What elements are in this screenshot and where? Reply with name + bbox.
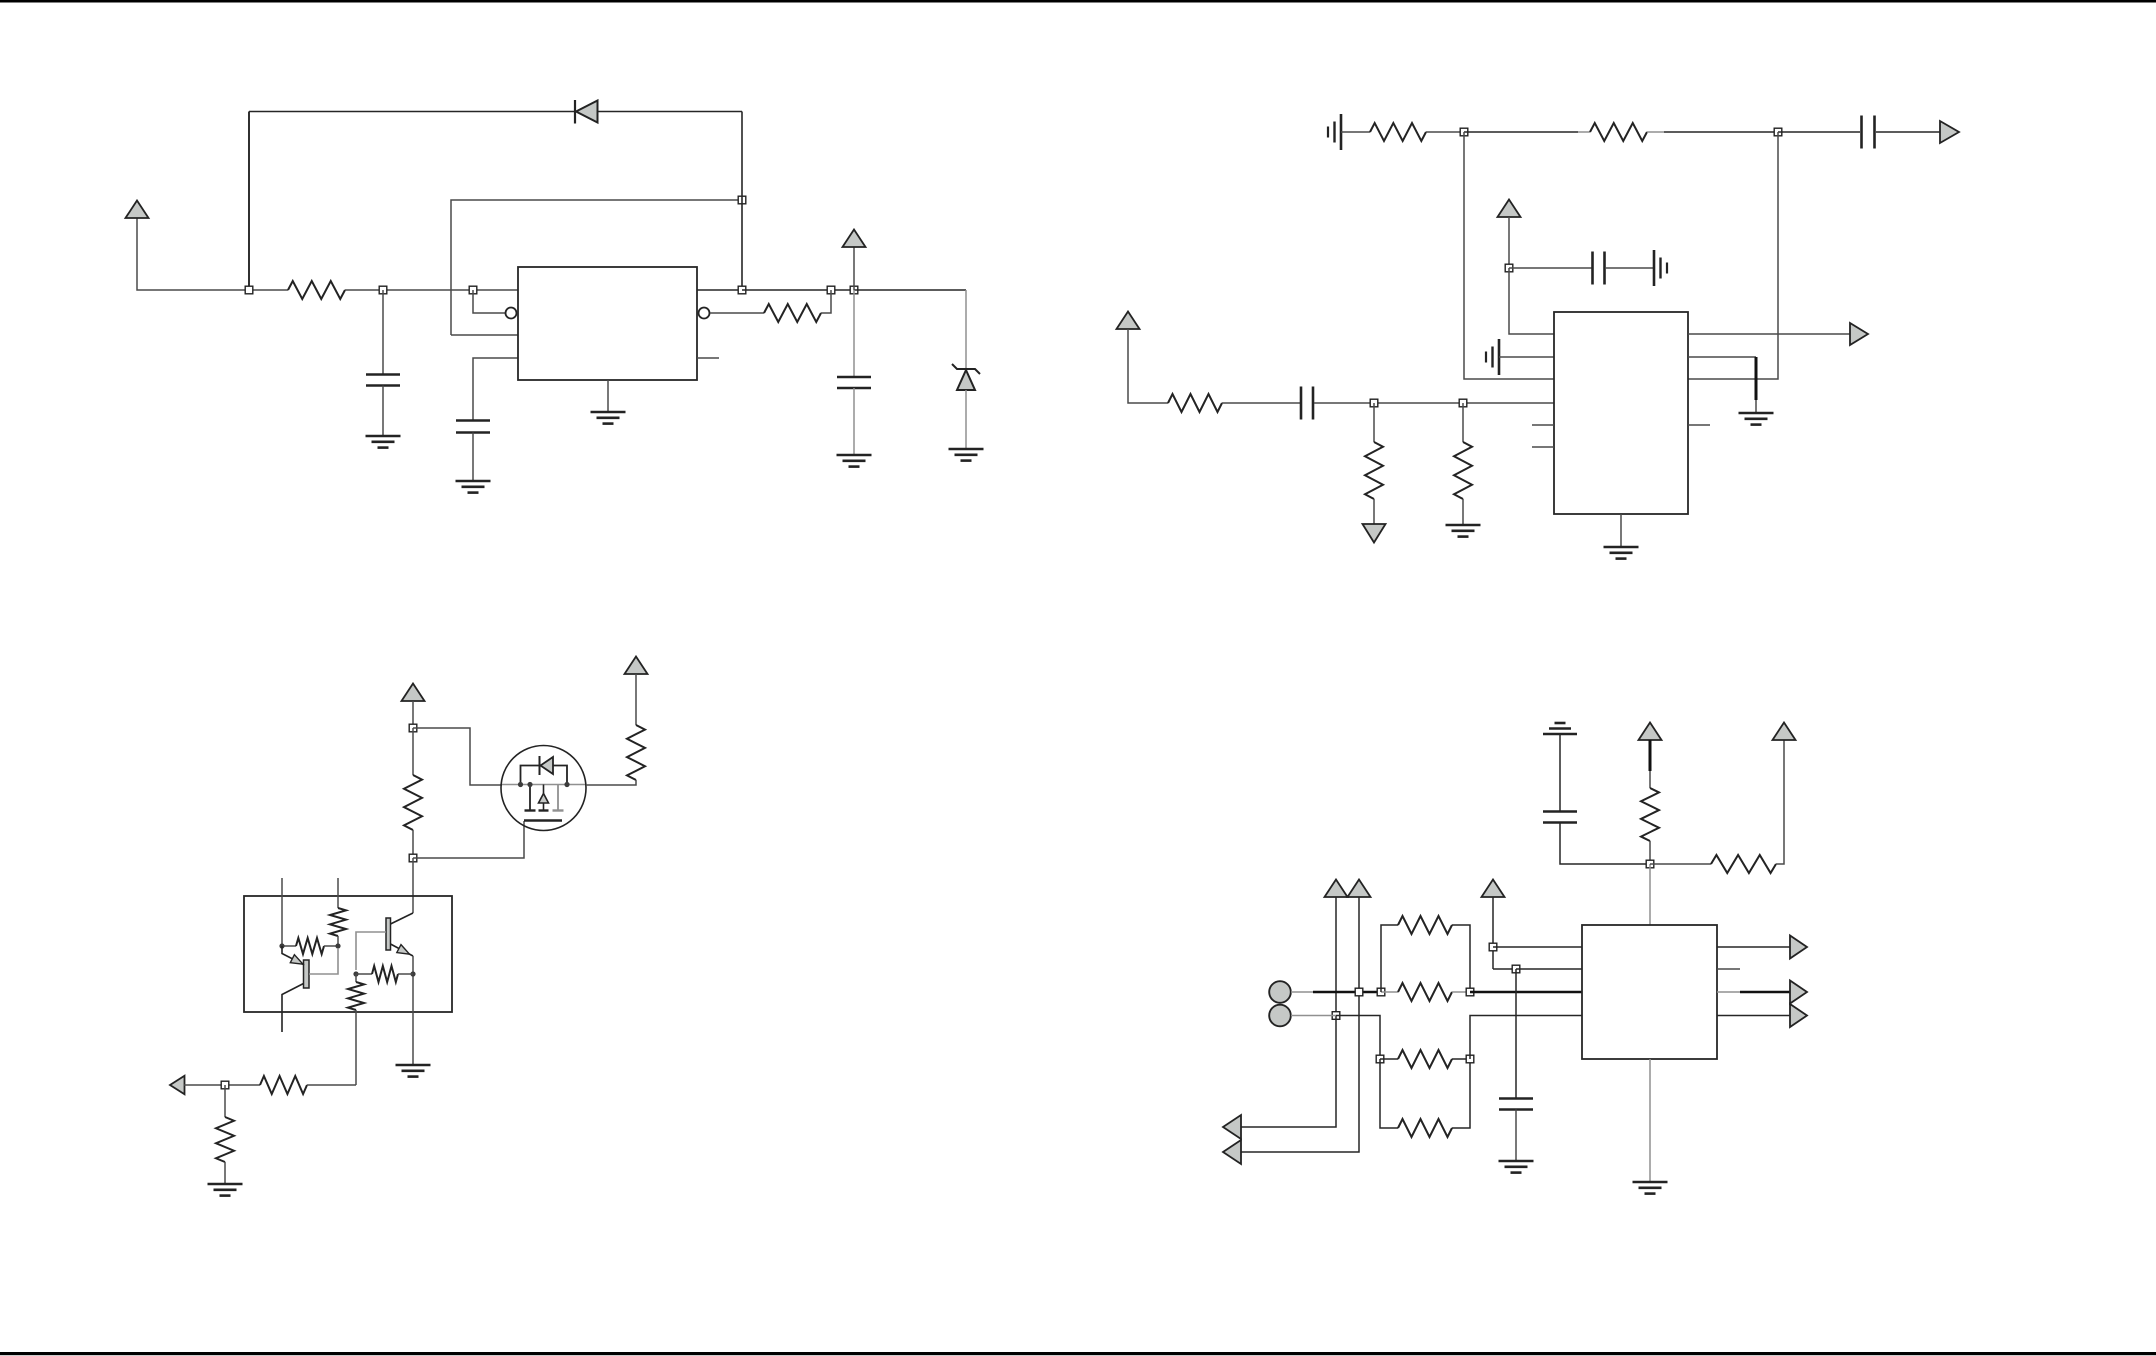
node J12 at 1463,403 <box>1459 399 1467 407</box>
node J8 at 1464,132 <box>1460 128 1468 136</box>
wire dark left vertical from diode rail <box>248 112 250 291</box>
M1 source contact <box>529 785 531 811</box>
output arrow OUT2 <box>1850 323 1868 345</box>
node J23 at 1493,947 <box>1489 943 1497 951</box>
wire J10 to C5 <box>1509 267 1592 269</box>
M1 body contact with substrate arrow <box>543 785 545 794</box>
wire R14 to R13 <box>307 1084 356 1086</box>
wire U4 out C <box>1717 1015 1790 1017</box>
wire VIN to R1 node <box>137 218 288 290</box>
node J2 at 383,290 <box>379 286 387 294</box>
zener diode Z1 <box>965 290 967 369</box>
resistor R5 <box>1168 394 1222 412</box>
wire J9 to C4 <box>1778 131 1860 133</box>
node J7 at 854,290 <box>850 286 858 294</box>
node dot D6 <box>354 972 358 976</box>
node J3 at 473,290 <box>469 286 477 294</box>
node dot D5 <box>411 972 415 976</box>
Q1 emitter with arrow <box>282 946 304 965</box>
resistor R20 <box>1380 1058 1398 1060</box>
resistor R13 <box>355 974 357 982</box>
power flag VCC8 <box>1773 723 1796 741</box>
wire R5 to C6 <box>1222 402 1300 404</box>
wire U2 output A <box>1688 333 1850 335</box>
wire J16 to U4 top pin <box>1649 864 1651 925</box>
wire dark J8 to R4 <box>1464 131 1578 133</box>
node J6 at 831,290 <box>827 286 835 294</box>
wire U4 out A <box>1717 946 1790 948</box>
wire U1 ground pin <box>607 380 609 412</box>
wire C6 to U2 pin4 <box>1314 402 1554 404</box>
wire J13 to M1 drain <box>413 728 502 785</box>
inverted ground IG1 <box>1543 733 1577 736</box>
stub U3 top pin1 <box>281 878 283 946</box>
wire U1 pin4 to C2 <box>473 358 518 420</box>
IC U2 body <box>1554 312 1688 514</box>
Q2 collector <box>391 913 414 924</box>
wire VCC6 to R9 <box>635 674 637 725</box>
node J15 at 225,1085 <box>221 1081 229 1089</box>
wire U2 pin to ground G7 <box>1688 356 1756 358</box>
parallel loop R19 <box>1381 925 1398 992</box>
power flag VCC3 <box>1498 200 1521 218</box>
wire diode top rail <box>249 111 742 113</box>
ground G10 <box>208 1183 243 1186</box>
wire C4 to output arrow <box>1876 131 1941 133</box>
resistor R2 <box>764 304 821 322</box>
resistor R16 <box>1641 788 1659 841</box>
node dot D4 <box>336 944 340 948</box>
node J11 at 1374,403 <box>1370 399 1378 407</box>
wire output to zener branch <box>854 289 966 291</box>
resistor R15 <box>224 1085 226 1117</box>
M1 body diode D2 <box>539 756 541 775</box>
node J5 at 742,290 <box>738 286 746 294</box>
node J22 at 1470,1059 <box>1466 1055 1474 1063</box>
resistor R1 <box>288 281 345 299</box>
wire U2 ground pin <box>1620 514 1622 547</box>
node dot D3 <box>280 944 284 948</box>
transistor array U3 box <box>244 896 452 1012</box>
wire row B to pair <box>1336 1016 1380 1060</box>
wire row A thick segment <box>1313 991 1381 993</box>
ground G5 <box>591 411 626 414</box>
resistor R14 <box>260 1076 307 1094</box>
node J20 at 1470,992 <box>1466 988 1474 996</box>
sideways ground SG1 <box>1340 114 1343 150</box>
resistor R11 <box>282 945 296 947</box>
capacitor C3 <box>853 290 855 377</box>
power flag VCC5 <box>402 684 425 702</box>
node J14 at 413,858 <box>409 854 417 862</box>
page bottom border bar <box>0 1352 2156 1355</box>
resistor R6 <box>1373 403 1375 442</box>
power flag VCC1 <box>126 201 149 219</box>
wire C7 to node J16 <box>1560 823 1650 865</box>
output arrow OUT4 <box>1223 1115 1241 1139</box>
wire P1 to row A <box>1291 991 1313 993</box>
ground G6 <box>1446 524 1481 527</box>
wire J16 to R17 <box>1650 863 1711 865</box>
node J10 at 1509,268 <box>1505 264 1513 272</box>
ground G9 <box>396 1064 431 1067</box>
output arrow OUT3 <box>170 1076 185 1095</box>
wire J14 down to Q2 collector <box>412 858 414 913</box>
resistor R18 <box>1381 991 1398 993</box>
MOSFET M1 envelope <box>501 746 586 831</box>
wire VCC9a vertical to row B <box>1335 897 1337 1016</box>
parallel loop R21 <box>1380 1059 1398 1128</box>
wire R2 to J6 <box>821 290 831 313</box>
Q2 base link <box>356 932 386 970</box>
wire VCC5 to node J13 <box>412 701 414 728</box>
stub U2 left pin6 <box>1532 446 1554 448</box>
wire VCC3 to node J10 <box>1508 217 1510 268</box>
wire R9 to M1 source <box>586 780 636 785</box>
ground G2 <box>456 480 491 483</box>
output arrow OUT8 <box>1790 1004 1807 1027</box>
M1 drain contact <box>557 785 559 811</box>
wire U4 ground pin <box>1649 1059 1651 1182</box>
sideways ground SG2 <box>1653 250 1656 286</box>
stub U4 right pin <box>1717 968 1740 970</box>
wire OUT3 to node J15 <box>184 1084 260 1086</box>
capacitor C2 <box>456 419 490 422</box>
inversion bubble U1 right <box>699 308 710 319</box>
IC U1 body <box>518 267 697 380</box>
capacitor C6 <box>1300 387 1303 420</box>
wire J8 down to U2 pin3 <box>1464 132 1554 379</box>
wire output segment <box>742 289 854 291</box>
resistor R7 <box>1462 403 1464 442</box>
sideways ground SG3 <box>1498 339 1501 375</box>
node J13 at 413,728 <box>409 724 417 732</box>
node J17 at 1336,1015.5 <box>1332 1012 1340 1020</box>
Q2 emitter wire to ground <box>412 956 414 1065</box>
wire row A to U4 thick <box>1470 991 1582 993</box>
output arrow OUT1 <box>1940 121 1959 143</box>
wire R1 to U1 pin1 <box>345 289 518 291</box>
M1 gate bar <box>524 819 562 821</box>
output arrow OUT7 <box>1790 981 1807 1004</box>
wire VCC4 to R5 <box>1128 329 1168 403</box>
capacitor C7 <box>1543 810 1577 813</box>
power flag VCC10 <box>1482 880 1505 898</box>
wire SG1 to R3 <box>1341 131 1370 133</box>
M1 source-drain row <box>502 784 585 786</box>
resistor R10 <box>330 908 346 936</box>
resistor R8 <box>412 728 414 775</box>
power flag VCC9a <box>1325 880 1348 898</box>
resistor R17 <box>1711 855 1776 873</box>
power flag VCC9b <box>1348 880 1371 898</box>
transistor Q2 base bar <box>386 918 391 950</box>
node J1 at 249,290 <box>245 286 253 294</box>
capacitor C5 <box>1591 252 1594 285</box>
Q1 collector <box>282 984 304 1033</box>
wire R4 to node J9 <box>1647 131 1664 133</box>
transistor Q1 base bar <box>304 960 310 988</box>
power flag VCC2 <box>853 247 855 290</box>
wire R17 to VCC8 <box>1776 740 1784 864</box>
node J4 at 742,200 <box>738 196 746 204</box>
ground G8 <box>1604 546 1639 549</box>
wire pair to U4 row B <box>1470 1016 1582 1060</box>
Q1 base link <box>309 948 338 974</box>
power flag VCC4 <box>1117 312 1140 330</box>
ground G11 <box>1499 1160 1534 1163</box>
wire feedback top <box>451 200 742 335</box>
ground G12 <box>1633 1181 1668 1184</box>
stub U2 left pin5 <box>1532 424 1554 426</box>
connector pin P1 <box>1269 981 1291 1003</box>
connector pin P2 <box>1269 1005 1291 1027</box>
ground G1 <box>366 435 401 438</box>
wire R3 to node J8 <box>1426 131 1464 133</box>
node J24 at 1516,969 <box>1512 965 1520 973</box>
power flag VEE1 <box>1363 524 1386 543</box>
wire J9 down to U2 right pin <box>1688 132 1778 379</box>
IC U4 body <box>1582 925 1717 1059</box>
wire VCC7 thick segment <box>1649 740 1652 771</box>
wire J10 down to U2 pin1 <box>1509 268 1554 334</box>
page top border bar <box>0 0 2156 3</box>
node J18 at 1359,992 <box>1355 988 1363 996</box>
output arrow OUT5 <box>1223 1140 1241 1164</box>
wire P2 to row B <box>1291 1015 1336 1017</box>
ground G7 <box>1739 412 1774 415</box>
capacitor C8 <box>1515 969 1517 1099</box>
wire vertical diode to output node <box>741 112 743 291</box>
wire bubble to R2 <box>710 312 764 314</box>
node J16 at 1650,864 <box>1646 860 1654 868</box>
wire IG1 to C7 <box>1559 734 1561 812</box>
Q2 emitter with arrow <box>391 944 414 956</box>
wire VCC9b vertical to row A <box>1358 897 1360 992</box>
inversion bubble U1 left <box>506 308 517 319</box>
wire SG3 to U2 pin2 <box>1499 356 1554 358</box>
wire row A vertical down to OUT5 <box>1241 992 1359 1152</box>
resistor R4 <box>1590 123 1647 141</box>
stub U2 right pin <box>1688 424 1710 426</box>
wire U1 output pin <box>697 289 742 291</box>
diode D1 <box>574 100 576 124</box>
wire J3 to U1 inverting input bubble <box>473 290 505 313</box>
stub U1 right pin <box>697 357 719 359</box>
wire J17 down to OUT4 <box>1241 1016 1336 1128</box>
wire C5 to SG2 <box>1605 267 1654 269</box>
wire U4 out B thick <box>1717 991 1740 993</box>
resistor R9 <box>627 725 645 780</box>
node J21 at 1380,1059 <box>1376 1055 1384 1063</box>
M1 dots <box>518 782 522 786</box>
wire VCC10 down <box>1492 897 1494 969</box>
output arrow OUT6 <box>1790 936 1807 959</box>
wire J23 to U4 pin A <box>1493 946 1582 948</box>
resistor R12 <box>356 973 372 975</box>
wire J24 to U4 pin B <box>1516 968 1582 970</box>
capacitor C1 <box>382 290 384 375</box>
power flag VCC7 <box>1639 723 1662 741</box>
wire J14 to M1 gate <box>413 821 524 858</box>
resistor R3 <box>1370 123 1426 141</box>
ground G3 <box>837 454 872 457</box>
M1 body diode loop <box>521 766 568 785</box>
capacitor C4 <box>1860 116 1863 149</box>
node J9 at 1778,132 <box>1774 128 1782 136</box>
ground G4 <box>949 448 984 451</box>
wire corner to J24 <box>1493 968 1516 970</box>
stub U3 top pin2 <box>337 878 339 908</box>
power flag VCC6 <box>625 657 648 675</box>
node J19 at 1381,992 <box>1377 988 1385 996</box>
wire U1 pin3 lead <box>451 334 518 336</box>
